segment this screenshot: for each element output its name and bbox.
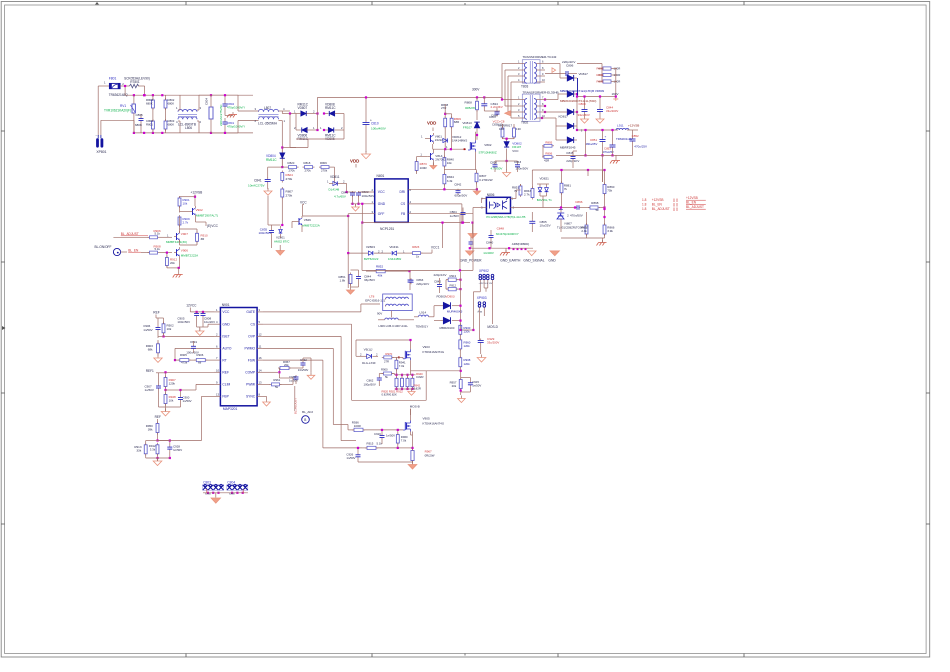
svg-text:2222A: 2222A (435, 138, 444, 142)
svg-text:2.2n/3KV: 2.2n/3KV (491, 105, 503, 109)
svg-text:VDD: VDD (427, 121, 437, 126)
svg-text:27R: 27R (441, 106, 446, 110)
svg-text:1N4148WS: 1N4148WS (452, 138, 467, 142)
svg-text:1.8k: 1.8k (340, 278, 346, 282)
svg-text:1n/50V: 1n/50V (183, 399, 192, 403)
svg-text:R806: R806 (320, 161, 327, 165)
svg-text:BAV99L,T1: BAV99L,T1 (537, 198, 552, 202)
svg-text:CLIM: CLIM (222, 383, 230, 387)
svg-text:VCC: VCC (222, 310, 230, 314)
svg-text:V9(1)J: V9(1)J (364, 348, 373, 352)
svg-text:7.0k: 7.0k (401, 438, 407, 442)
svg-text:7.0k: 7.0k (399, 364, 405, 368)
svg-text:(( )): (( )) (673, 207, 678, 211)
svg-text:VZ803: VZ803 (366, 245, 375, 249)
svg-text:68R: 68R (454, 120, 459, 124)
svg-text:130: 130 (516, 127, 521, 131)
svg-text:REF: REF (153, 310, 159, 314)
svg-text:R912: R912 (450, 284, 457, 288)
svg-text:10u/25V: 10u/25V (540, 224, 551, 228)
svg-text:XP902: XP902 (479, 269, 489, 273)
svg-text:R913: R913 (450, 274, 457, 278)
svg-text:RM11C: RM11C (325, 106, 336, 110)
svg-text:16: 16 (259, 356, 263, 360)
svg-text:40k: 40k (378, 273, 383, 277)
svg-text:L911: L911 (617, 123, 624, 127)
svg-text:300V: 300V (472, 87, 480, 91)
svg-text:68k: 68k (148, 348, 153, 352)
svg-text:+12VSB: +12VSB (191, 190, 203, 194)
svg-text:V902: V902 (196, 208, 203, 212)
svg-text:B: B (304, 418, 306, 422)
svg-text:KD817: KD817 (559, 114, 569, 118)
svg-text:3.9k: 3.9k (607, 229, 613, 233)
svg-text:120k: 120k (169, 382, 176, 386)
svg-text:1.8: 1.8 (642, 198, 647, 202)
svg-text:(( )): (( )) (673, 198, 678, 202)
svg-text:GND: GND (222, 322, 230, 326)
svg-text:R806: R806 (545, 151, 552, 155)
svg-text:1n/50V: 1n/50V (386, 433, 395, 437)
svg-text:C848: C848 (497, 227, 505, 231)
svg-text:C843: C843 (514, 160, 521, 164)
svg-text:C847: C847 (489, 115, 497, 119)
svg-text:2.7k: 2.7k (524, 193, 530, 197)
svg-text:BL-ON/OFF: BL-ON/OFF (95, 245, 112, 249)
svg-text:BL_ADJUST: BL_ADJUST (652, 207, 670, 211)
svg-text:OVP: OVP (248, 335, 256, 339)
svg-text:V802: V802 (484, 143, 491, 147)
svg-text:MUR460X3: MUR460X3 (447, 310, 463, 314)
svg-text:R868: R868 (591, 201, 598, 205)
svg-text:DRI: DRI (400, 190, 406, 194)
svg-text:BL_ADJUST: BL_ADJUST (294, 398, 298, 414)
svg-text:3.3k: 3.3k (447, 179, 453, 183)
svg-text:VD813: VD813 (462, 121, 472, 125)
svg-text:470n/50V: 470n/50V (570, 214, 583, 218)
svg-text:TEM301Y: TEM301Y (416, 325, 429, 329)
svg-text:C836: C836 (490, 160, 497, 164)
svg-text:RT: RT (222, 358, 226, 362)
svg-text:F801: F801 (109, 77, 117, 81)
svg-text:100u/400V: 100u/400V (371, 127, 387, 131)
svg-text:100R: 100R (354, 424, 361, 428)
svg-text:VCC: VCC (300, 201, 307, 205)
svg-text:AR8(NR80D): AR8(NR80D) (512, 242, 530, 246)
svg-text:R970: R970 (385, 352, 392, 356)
svg-text:RT801: RT801 (130, 80, 140, 84)
svg-text:5.1k: 5.1k (155, 247, 161, 251)
svg-text:C932: C932 (300, 358, 307, 362)
svg-text:NC/470p/1000V/Y: NC/470p/1000V/Y (496, 232, 519, 236)
svg-text:3.3k: 3.3k (150, 448, 156, 452)
svg-text:FSW: FSW (248, 358, 256, 362)
svg-text:MAP3201: MAP3201 (223, 407, 238, 411)
svg-text:27R: 27R (384, 359, 389, 363)
svg-text:V906: V906 (181, 248, 188, 252)
svg-text:R801: R801 (146, 123, 153, 127)
svg-text:3R: 3R (201, 237, 205, 241)
svg-text:+12VSB: +12VSB (652, 198, 664, 202)
svg-text:MOS-B: MOS-B (410, 405, 420, 409)
svg-text:LCL-3505MH: LCL-3505MH (258, 122, 278, 126)
svg-text:33p/50V: 33p/50V (364, 278, 375, 282)
svg-text:100n/50V: 100n/50V (177, 320, 190, 324)
svg-text:RV1: RV1 (120, 104, 126, 108)
svg-text:PWMO: PWMO (245, 347, 256, 351)
svg-text:0.82R: 0.82R (416, 375, 423, 379)
svg-text:R823: R823 (412, 245, 419, 249)
svg-text:DLG-LX3F: DLG-LX3F (362, 361, 376, 365)
svg-text:C851: C851 (590, 138, 597, 142)
svg-text:BL_ADJUST: BL_ADJUST (686, 205, 704, 209)
svg-text:473k: 473k (181, 360, 188, 364)
svg-text:120k: 120k (464, 362, 471, 366)
svg-text:GND_POWER: GND_POWER (460, 258, 482, 262)
svg-text:STF10NK80Z: STF10NK80Z (479, 150, 497, 154)
svg-text:1n/50V: 1n/50V (346, 456, 355, 460)
svg-text:BL_EN: BL_EN (652, 202, 663, 206)
svg-text:13n/50V: 13n/50V (298, 368, 309, 372)
svg-text:C804: C804 (205, 98, 209, 105)
svg-text:R852: R852 (376, 265, 383, 269)
svg-text:TVR10621KA20(F): TVR10621KA20(F) (104, 109, 131, 113)
svg-text:470u/25V: 470u/25V (634, 145, 647, 149)
svg-text:1n/50V: 1n/50V (143, 328, 152, 332)
svg-text:5k: 5k (596, 208, 600, 212)
svg-text:N801: N801 (377, 174, 385, 178)
svg-text:470p/1000V/Y: 470p/1000V/Y (227, 106, 245, 110)
svg-text:TRANSFORMER-TC443: TRANSFORMER-TC443 (523, 55, 557, 59)
svg-text:PWMI: PWMI (246, 383, 255, 387)
svg-text:VD811: VD811 (330, 175, 340, 179)
svg-text:270k: 270k (305, 169, 312, 173)
svg-text:VD821: VD821 (540, 177, 550, 181)
svg-text:12: 12 (259, 332, 263, 336)
svg-text:R808: R808 (465, 101, 473, 105)
svg-text:7k: 7k (514, 189, 518, 193)
svg-text:V907: V907 (181, 232, 188, 236)
svg-text:C805: C805 (136, 113, 143, 117)
svg-text:10k: 10k (169, 399, 174, 403)
svg-text:MBR20100: MBR20100 (440, 326, 455, 330)
svg-text:N806: N806 (487, 193, 495, 197)
svg-text:VCC: VCC (512, 149, 519, 153)
svg-text:11: 11 (259, 344, 262, 348)
svg-text:MMBT2222A: MMBT2222A (181, 254, 198, 258)
svg-text:1.8: 1.8 (642, 202, 647, 206)
svg-text:1.8: 1.8 (642, 207, 647, 211)
svg-text:C842: C842 (434, 280, 441, 284)
svg-text:C842: C842 (454, 183, 461, 187)
svg-text:VCC: VCC (378, 190, 386, 194)
svg-text:MMBT2222A: MMBT2222A (302, 224, 319, 228)
svg-text:220p/1KV: 220p/1KV (416, 282, 429, 286)
svg-text:470p/1000V/Y: 470p/1000V/Y (227, 125, 245, 129)
svg-text:R820: R820 (288, 161, 295, 165)
svg-text:GND_SIGNAL: GND_SIGNAL (523, 258, 544, 262)
svg-text:L807: L807 (264, 106, 271, 110)
svg-text:T802: T802 (521, 121, 528, 125)
svg-text:270k: 270k (321, 169, 328, 173)
svg-text:1n/50V: 1n/50V (173, 448, 182, 452)
svg-text:V903: V903 (423, 345, 430, 349)
svg-text:39k: 39k (148, 428, 153, 432)
svg-text:10k: 10k (167, 327, 172, 331)
svg-text:BZT52C22: BZT52C22 (364, 257, 379, 261)
svg-text:MBRF2045: MBRF2045 (560, 145, 576, 149)
svg-text:V905: V905 (423, 416, 430, 420)
svg-text:1u/50V: 1u/50V (145, 388, 154, 392)
svg-text:4.7u/65V: 4.7u/65V (334, 195, 346, 199)
svg-text:R818: R818 (304, 161, 311, 165)
svg-text:MMBT4401(3C): MMBT4401(3C) (166, 240, 187, 244)
svg-text:10k: 10k (183, 202, 188, 206)
svg-text:+12VSB: +12VSB (686, 196, 698, 200)
svg-text:5.1k: 5.1k (377, 441, 383, 445)
svg-text:0R5/2%: 0R5/2% (465, 106, 476, 110)
svg-text:0R(2)W: 0R(2)W (425, 453, 435, 457)
svg-text:1n/400V: 1n/400V (483, 251, 494, 255)
svg-text:GND: GND (378, 202, 386, 206)
svg-text:R961: R961 (273, 378, 280, 382)
svg-text:680K: 680K (168, 102, 175, 106)
svg-text:COMP: COMP (245, 371, 256, 375)
svg-text:10nAC275V: 10nAC275V (248, 184, 265, 188)
svg-text:R906: R906 (197, 353, 204, 357)
svg-text:90V: 90V (377, 311, 382, 315)
svg-text:XP903: XP903 (477, 296, 487, 300)
svg-text:C804: C804 (227, 480, 235, 484)
svg-text:R915: R915 (367, 441, 374, 445)
svg-text:MOS-D: MOS-D (487, 325, 498, 329)
svg-text:270k: 270k (289, 169, 296, 173)
svg-text:12VCC: 12VCC (186, 303, 197, 307)
svg-text:C866: C866 (575, 200, 583, 204)
svg-text:13: 13 (216, 392, 220, 396)
svg-text:1u/50V: 1u/50V (450, 214, 459, 218)
svg-text:10k: 10k (447, 161, 452, 165)
svg-text:C845: C845 (566, 151, 573, 155)
svg-text:33u/250V: 33u/250V (578, 113, 590, 117)
svg-text:68: 68 (198, 360, 202, 364)
svg-text:GATE: GATE (246, 310, 256, 314)
svg-text:10R: 10R (499, 127, 504, 131)
svg-text:MMBT2907A(,T): MMBT2907A(,T) (196, 213, 218, 217)
svg-text:L914: L914 (420, 310, 427, 314)
svg-text:TDM201xLL: TDM201xLL (616, 137, 633, 141)
svg-text:VDD: VDD (350, 159, 360, 164)
svg-text:L806: L806 (185, 126, 192, 130)
svg-text:GND: GND (548, 258, 556, 262)
svg-text:hdhdh: hdhdh (229, 493, 236, 495)
svg-text:100u/50V: 100u/50V (362, 194, 375, 198)
svg-text:VD817: VD817 (579, 72, 589, 76)
svg-text:VCC1: VCC1 (431, 245, 440, 249)
svg-text:600p/50V: 600p/50V (455, 194, 468, 198)
svg-text:680K: 680K (168, 123, 175, 127)
svg-text:KTD6416ANT4G: KTD6416ANT4G (423, 421, 445, 425)
svg-text:20k: 20k (452, 384, 457, 388)
svg-text:FR107: FR107 (463, 126, 472, 130)
svg-text:C841: C841 (254, 179, 262, 183)
svg-text:R817: R817 (505, 124, 512, 128)
svg-text:10: 10 (216, 368, 220, 372)
svg-text:(E)VCC: (E)VCC (207, 224, 219, 228)
svg-text:480u/25V: 480u/25V (586, 142, 598, 146)
svg-text:33u/200V: 33u/200V (487, 341, 499, 345)
svg-text:20k: 20k (284, 363, 289, 367)
svg-text:120k: 120k (464, 344, 471, 348)
svg-text:BL_ADJ: BL_ADJ (302, 410, 313, 414)
svg-text:14: 14 (259, 368, 263, 372)
svg-text:1N4448W: 1N4448W (388, 257, 401, 261)
svg-text:7k: 7k (564, 187, 568, 191)
svg-text:C809: C809 (579, 102, 586, 106)
svg-text:REF1: REF1 (146, 369, 154, 373)
svg-text:2N7002: 2N7002 (435, 158, 446, 162)
svg-text:0.82R/0.82K: 0.82R/0.82K (382, 393, 397, 397)
svg-text:680K: 680K (135, 123, 142, 127)
svg-text:100n/50V: 100n/50V (259, 231, 272, 235)
svg-text:33k: 33k (136, 449, 141, 453)
svg-text:REF: REF (155, 415, 161, 419)
svg-text:ISET: ISET (222, 335, 229, 339)
svg-text:10u/20V: 10u/20V (204, 320, 215, 324)
svg-text:BL_ADJUST: BL_ADJUST (121, 232, 139, 236)
svg-text:FBP: FBP (222, 395, 229, 399)
svg-text:OFF: OFF (378, 212, 385, 216)
svg-text:CS: CS (401, 202, 406, 206)
svg-text:C803: C803 (203, 480, 211, 484)
svg-text:C840: C840 (486, 241, 494, 245)
svg-text:VD903: VD903 (445, 295, 454, 299)
svg-text:20k: 20k (170, 261, 175, 265)
svg-text:2.4k: 2.4k (581, 229, 587, 233)
svg-text:hdhdh: hdhdh (205, 493, 212, 495)
svg-text:+: + (605, 135, 607, 139)
svg-text:VD431: VD431 (389, 245, 399, 249)
svg-text:DL4148: DL4148 (329, 187, 340, 191)
svg-text:2.7k: 2.7k (183, 221, 189, 225)
svg-text:1u/50V: 1u/50V (289, 379, 298, 383)
svg-text:GND_EARTH: GND_EARTH (500, 258, 521, 262)
svg-text:100p/50V: 100p/50V (364, 382, 376, 386)
svg-text:C810: C810 (371, 122, 379, 126)
svg-text:RM11C: RM11C (266, 158, 277, 162)
svg-text:120k: 120k (464, 329, 471, 333)
svg-text:220p/1KV: 220p/1KV (434, 273, 447, 277)
svg-text:XP801: XP801 (96, 150, 106, 154)
svg-text:0.82R: 0.82R (414, 387, 421, 391)
svg-text:AMS2 8T/C: AMS2 8T/C (274, 239, 290, 243)
svg-text:13: 13 (259, 380, 263, 384)
svg-text:(( )): (( )) (673, 202, 678, 206)
svg-text:BL_EN: BL_EN (686, 201, 697, 205)
svg-text:4.7u/50V: 4.7u/50V (491, 166, 503, 170)
svg-text:N901: N901 (222, 303, 230, 307)
svg-text:AUTO: AUTO (222, 347, 232, 351)
svg-text:270k: 270k (286, 194, 293, 198)
svg-text:42R: 42R (544, 159, 549, 163)
svg-text:680K: 680K (146, 102, 153, 106)
svg-text:V846: V846 (304, 218, 311, 222)
svg-text:270k: 270k (286, 177, 293, 181)
svg-text:C853: C853 (604, 147, 611, 151)
svg-text:R905: R905 (180, 353, 187, 357)
svg-text:NCP1251: NCP1251 (380, 227, 394, 231)
svg-text:KTD6416ANT4G: KTD6416ANT4G (423, 350, 445, 354)
svg-text:L906 LCB-C1007-241L: L906 LCB-C1007-241L (379, 324, 409, 328)
svg-text:MBRF10200CT-E1(LTF)B VD809: MBRF10200CT-E1(LTF)B VD809 (560, 89, 604, 93)
svg-text:1n/50V: 1n/50V (472, 384, 481, 388)
svg-text:+12VSB: +12VSB (628, 123, 639, 127)
svg-text:VD807: VD807 (298, 106, 308, 110)
svg-text:220nAC275VAC: 220nAC275VAC (219, 104, 223, 126)
svg-text:33u/200V: 33u/200V (606, 109, 618, 113)
svg-text:5.1k: 5.1k (155, 232, 161, 236)
svg-text:C916: C916 (374, 432, 381, 436)
svg-text:SYNC: SYNC (246, 395, 256, 399)
svg-text:T803: T803 (521, 85, 528, 89)
svg-text:R900: R900 (381, 368, 388, 372)
svg-text:0.27R/2W: 0.27R/2W (479, 178, 492, 182)
svg-text:100R: 100R (420, 166, 427, 170)
svg-text:C806: C806 (566, 64, 574, 68)
svg-text:BL_EN: BL_EN (128, 248, 139, 252)
svg-text:+12V G G 12V: +12V G G 12V (479, 283, 493, 285)
svg-text:PC123B(N8A C?B(H)1-4A LTB: PC123B(N8A C?B(H)1-4A LTB (486, 215, 525, 219)
svg-text:R805: R805 (545, 140, 552, 144)
svg-text:REF: REF (222, 371, 229, 375)
svg-text:CS: CS (251, 322, 256, 326)
svg-text:75k: 75k (607, 189, 612, 193)
